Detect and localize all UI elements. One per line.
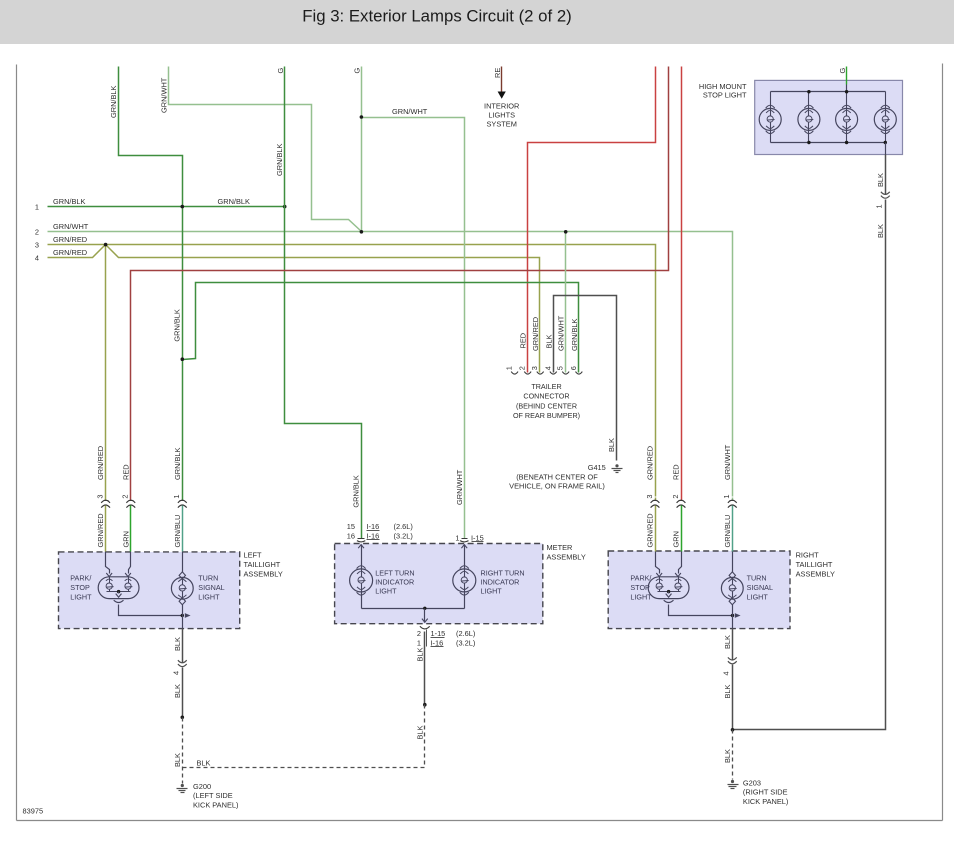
svg-text:GRN/RED: GRN/RED xyxy=(96,446,105,480)
svg-text:GRN/BLK: GRN/BLK xyxy=(109,85,118,118)
trailer pin 5 xyxy=(562,372,569,375)
wire line4 GRN/RED horizontal to trailer pin3 xyxy=(48,245,540,373)
meter pin 1 terminal xyxy=(462,538,468,540)
svg-text:BLK: BLK xyxy=(415,647,424,661)
park/stop bulb body xyxy=(648,577,689,599)
wire BLK high mount to right kick panel xyxy=(885,143,887,155)
wire RED from top to left taillight pin2 xyxy=(131,67,669,498)
svg-text:GRN/RED: GRN/RED xyxy=(646,513,655,547)
svg-text:LIGHTS: LIGHTS xyxy=(488,111,515,120)
svg-text:STOP: STOP xyxy=(630,583,650,592)
svg-text:(2.6L): (2.6L) xyxy=(394,522,413,531)
svg-text:2: 2 xyxy=(35,228,39,237)
svg-text:1: 1 xyxy=(455,534,459,543)
park/stop bulb body xyxy=(98,577,139,599)
svg-text:3: 3 xyxy=(645,494,654,498)
svg-text:INTERIOR: INTERIOR xyxy=(484,102,519,111)
junction right BLK / high mount xyxy=(731,728,735,732)
svg-text:ASSEMBLY: ASSEMBLY xyxy=(796,570,835,579)
svg-text:GRN/BLK: GRN/BLK xyxy=(53,197,86,206)
svg-text:STOP LIGHT: STOP LIGHT xyxy=(703,91,747,100)
svg-text:GRN: GRN xyxy=(672,531,681,547)
meter pin 15/16 terminal xyxy=(358,538,365,540)
svg-text:2: 2 xyxy=(518,366,527,370)
svg-text:1-15: 1-15 xyxy=(431,629,446,638)
svg-text:(2.6L): (2.6L) xyxy=(456,629,475,638)
trailer pin 6 xyxy=(576,372,583,375)
connector 1 BLK (high mount) xyxy=(881,192,890,195)
bulb high mount x=846.6 xyxy=(846,92,848,109)
junction line1 end at GRN/BLK vertical xyxy=(283,205,287,209)
svg-text:RED: RED xyxy=(518,333,527,349)
svg-text:4: 4 xyxy=(35,253,39,262)
svg-text:LEFT TURN: LEFT TURN xyxy=(375,568,414,577)
right taillight assembly box xyxy=(608,551,790,629)
meter assembly box xyxy=(335,544,543,624)
wire BLK right taillight ground xyxy=(732,629,734,660)
meter right bulb entry xyxy=(461,545,467,549)
svg-text:83975: 83975 xyxy=(23,807,44,816)
junction left BLK solid/dashed xyxy=(181,716,185,720)
svg-text:4: 4 xyxy=(172,671,181,675)
svg-text:LIGHT: LIGHT xyxy=(747,593,769,602)
svg-text:SIGNAL: SIGNAL xyxy=(198,583,224,592)
svg-text:GRN/WHT: GRN/WHT xyxy=(392,107,428,116)
wire line2 GRN/WHT horizontal to right taillight pin1 xyxy=(48,232,733,497)
wire BLK trailer pin4 to ground G415 xyxy=(554,296,617,461)
junction line2 / GRN-WHT stub xyxy=(360,230,364,234)
svg-text:BLK: BLK xyxy=(723,749,732,763)
svg-text:(BENEATH CENTER OF: (BENEATH CENTER OF xyxy=(516,473,598,482)
svg-text:(LEFT SIDE: (LEFT SIDE xyxy=(193,791,233,800)
wire GRN/BLK trailer pin6 branch xyxy=(183,283,579,373)
junction GRN/BLK branch joins pin1 drop xyxy=(181,357,185,361)
wire BLK left taillight ground xyxy=(182,629,184,663)
svg-text:I-16: I-16 xyxy=(367,522,380,531)
svg-text:RE: RE xyxy=(493,68,502,78)
svg-text:METER: METER xyxy=(547,543,573,552)
meter common bar xyxy=(361,592,363,609)
svg-text:1: 1 xyxy=(172,494,181,498)
park/stop bulb entries xyxy=(106,552,110,574)
svg-text:LIGHT: LIGHT xyxy=(198,593,220,602)
svg-text:TAILLIGHT: TAILLIGHT xyxy=(244,560,281,569)
wire park/stop to turn signal (right) xyxy=(669,605,733,616)
wire park/stop to turn signal (left) xyxy=(119,605,183,616)
park/stop common bar xyxy=(107,591,131,593)
svg-text:BLK: BLK xyxy=(876,173,885,187)
svg-text:BLK: BLK xyxy=(723,684,732,698)
svg-text:G200: G200 xyxy=(193,782,211,791)
svg-text:LIGHT: LIGHT xyxy=(375,586,397,595)
svg-text:BLK: BLK xyxy=(607,438,616,452)
wire line3 GRN/RED horizontal to right taillight pin3 xyxy=(48,245,656,497)
park/stop bottom terminal xyxy=(114,600,124,602)
svg-text:1: 1 xyxy=(417,639,421,648)
high mount top bus xyxy=(771,91,886,93)
svg-text:GRN/BLK: GRN/BLK xyxy=(570,318,579,351)
connector 4 BLK (right) xyxy=(728,657,737,660)
svg-text:TURN: TURN xyxy=(198,574,218,583)
park/stop bottom terminal xyxy=(664,600,674,602)
meter left bulb entry xyxy=(358,545,364,549)
right turn indicator bulb xyxy=(453,569,476,592)
diagram frame border xyxy=(16,65,18,821)
svg-text:KICK PANEL): KICK PANEL) xyxy=(743,797,788,806)
wire GRN/BLK down to left taillight pin1 xyxy=(182,207,184,498)
svg-text:2: 2 xyxy=(417,629,421,638)
svg-text:GRN/BLK: GRN/BLK xyxy=(218,197,251,206)
svg-text:INDICATOR: INDICATOR xyxy=(375,577,414,586)
taillight pin 2 wire/connector xyxy=(681,498,683,501)
svg-text:GRN/RED: GRN/RED xyxy=(646,446,655,480)
svg-text:GRN/WHT: GRN/WHT xyxy=(159,77,168,113)
taillight pin 3 wire/connector xyxy=(655,498,657,501)
svg-text:3: 3 xyxy=(95,494,104,498)
meter exit pin labels xyxy=(426,630,428,647)
taillight pin 3 wire/connector xyxy=(105,498,107,501)
svg-text:TRAILER: TRAILER xyxy=(531,382,561,391)
svg-text:TURN: TURN xyxy=(747,574,767,583)
taillight pin 2 wire/connector xyxy=(130,498,132,501)
svg-text:GRN: GRN xyxy=(121,531,130,547)
svg-text:G: G xyxy=(838,68,847,74)
ground G203 xyxy=(731,780,734,783)
svg-text:15: 15 xyxy=(347,522,355,531)
arrow interior lights xyxy=(498,92,506,99)
junction lines 3/4 xyxy=(104,243,108,247)
turn signal bulb xyxy=(732,552,734,573)
junction meter BLK xyxy=(423,703,427,707)
park/stop bulb entries xyxy=(656,552,660,574)
svg-text:RED: RED xyxy=(672,464,681,480)
wire BLK meter dashed xyxy=(424,705,426,768)
connector 4 BLK (left) xyxy=(178,660,187,663)
trailer pin 4 xyxy=(550,372,557,375)
svg-text:GRN/WHT: GRN/WHT xyxy=(557,315,566,351)
svg-text:3: 3 xyxy=(530,366,539,370)
svg-text:G415: G415 xyxy=(588,463,606,472)
svg-text:BLK: BLK xyxy=(723,635,732,649)
ground G415 xyxy=(615,464,618,467)
svg-text:5: 5 xyxy=(556,366,565,370)
svg-text:BLK: BLK xyxy=(544,334,553,348)
svg-text:RIGHT: RIGHT xyxy=(796,551,819,560)
junction GRN/WHT branch xyxy=(360,115,364,119)
svg-text:G203: G203 xyxy=(743,779,761,788)
svg-text:1: 1 xyxy=(505,366,514,370)
wire BLK dashed to G200 xyxy=(182,718,184,784)
svg-text:Fig 3: Exterior Lamps Circuit: Fig 3: Exterior Lamps Circuit (2 of 2) xyxy=(302,7,572,26)
svg-text:BLK: BLK xyxy=(173,753,182,767)
svg-text:BLK: BLK xyxy=(173,684,182,698)
wire GRN/RED drop to left taillight pin3 xyxy=(105,245,107,498)
svg-text:GRN/WHT: GRN/WHT xyxy=(455,469,464,505)
junctions high mount buses xyxy=(807,90,810,93)
svg-text:1: 1 xyxy=(722,494,731,498)
svg-text:TAILLIGHT: TAILLIGHT xyxy=(796,560,833,569)
svg-text:G: G xyxy=(276,68,285,74)
wire RED to interior lights system xyxy=(501,67,503,92)
svg-text:GRN/RED: GRN/RED xyxy=(96,513,105,547)
meter ground exit xyxy=(424,609,426,623)
svg-text:BLK: BLK xyxy=(415,725,424,739)
svg-text:GRN/RED: GRN/RED xyxy=(531,317,540,351)
svg-text:VEHICLE, ON FRAME RAIL): VEHICLE, ON FRAME RAIL) xyxy=(509,482,605,491)
svg-text:(RIGHT SIDE: (RIGHT SIDE xyxy=(743,788,788,797)
bulb high mount x=885.3 xyxy=(885,92,887,109)
svg-text:LIGHT: LIGHT xyxy=(70,593,92,602)
svg-text:GRN/BLK: GRN/BLK xyxy=(173,447,182,480)
trailer pin 1 xyxy=(511,372,518,375)
svg-text:2: 2 xyxy=(671,494,680,498)
trailer pin 2 xyxy=(524,372,531,375)
svg-text:(3.2L): (3.2L) xyxy=(456,639,475,648)
svg-text:G: G xyxy=(353,68,362,74)
svg-text:LEFT: LEFT xyxy=(244,551,263,560)
svg-text:GRN/BLU: GRN/BLU xyxy=(723,515,732,548)
bulb high mount x=770.2 xyxy=(770,92,772,109)
title bar xyxy=(0,0,954,44)
left taillight assembly box xyxy=(59,552,240,629)
svg-text:GRN/WHT: GRN/WHT xyxy=(53,222,89,231)
high mount bottom bus xyxy=(771,142,886,144)
svg-text:GRN/BLK: GRN/BLK xyxy=(352,475,361,508)
svg-text:OF REAR BUMPER): OF REAR BUMPER) xyxy=(513,411,580,420)
ground G200 xyxy=(181,784,184,787)
svg-text:1: 1 xyxy=(35,203,39,212)
svg-text:RIGHT TURN: RIGHT TURN xyxy=(481,568,525,577)
svg-text:BLK: BLK xyxy=(197,759,211,768)
svg-text:(3.2L): (3.2L) xyxy=(394,531,413,540)
bulb high mount x=808.9 xyxy=(808,92,810,109)
left turn indicator bulb xyxy=(350,569,373,592)
wire RED from top to right taillight pin2 xyxy=(681,67,683,498)
park/stop common bar xyxy=(658,591,681,593)
svg-text:ASSEMBLY: ASSEMBLY xyxy=(244,570,283,579)
wire GRN/WHT line2 to trailer pin5 xyxy=(565,232,567,373)
svg-text:(BEHIND CENTER: (BEHIND CENTER xyxy=(516,401,577,410)
junction line1 / GRN-BLK drop xyxy=(181,205,185,209)
svg-text:2: 2 xyxy=(121,494,130,498)
svg-text:STOP: STOP xyxy=(70,583,90,592)
svg-text:BLK: BLK xyxy=(876,224,885,238)
svg-text:I-16: I-16 xyxy=(367,531,380,540)
trailer pin 3 xyxy=(537,372,544,375)
junction line2 / trailer pin5 xyxy=(564,230,568,234)
svg-text:RED: RED xyxy=(121,464,130,480)
svg-text:GRN/BLU: GRN/BLU xyxy=(173,515,182,548)
turn signal bulb xyxy=(182,552,184,573)
svg-text:SYSTEM: SYSTEM xyxy=(487,120,517,129)
svg-text:GRN/BLK: GRN/BLK xyxy=(173,309,182,342)
wire BLK meter down xyxy=(424,632,426,705)
svg-text:ASSEMBLY: ASSEMBLY xyxy=(547,553,586,562)
svg-text:GRN/RED: GRN/RED xyxy=(53,235,87,244)
svg-text:LIGHT: LIGHT xyxy=(630,593,652,602)
svg-text:GRN/BLK: GRN/BLK xyxy=(275,143,284,176)
high mount stop light box xyxy=(755,80,903,154)
svg-text:4: 4 xyxy=(722,671,731,675)
svg-text:KICK PANEL): KICK PANEL) xyxy=(193,800,238,809)
svg-text:GRN/WHT: GRN/WHT xyxy=(723,444,732,480)
svg-text:GRN/RED: GRN/RED xyxy=(53,248,87,257)
svg-text:BLK: BLK xyxy=(173,637,182,651)
svg-text:LIGHT: LIGHT xyxy=(481,586,503,595)
svg-text:16: 16 xyxy=(347,531,355,540)
svg-text:CONNECTOR: CONNECTOR xyxy=(523,392,569,401)
taillight pin 1 wire/connector xyxy=(182,498,184,501)
svg-text:3: 3 xyxy=(35,241,39,250)
svg-text:INDICATOR: INDICATOR xyxy=(481,577,520,586)
svg-text:SIGNAL: SIGNAL xyxy=(747,583,773,592)
svg-text:6: 6 xyxy=(569,366,578,370)
wire line1 GRN/BLK horizontal xyxy=(48,206,285,208)
svg-text:PARK/: PARK/ xyxy=(630,574,651,583)
svg-text:1: 1 xyxy=(875,204,884,208)
wire BLK dashed to G203 xyxy=(732,730,734,780)
taillight pin 1 wire/connector xyxy=(732,498,734,501)
svg-text:4: 4 xyxy=(543,366,552,370)
svg-text:PARK/: PARK/ xyxy=(70,574,91,583)
